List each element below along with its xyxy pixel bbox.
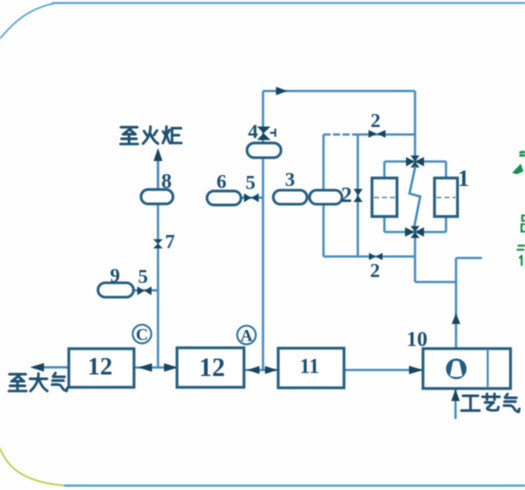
svg-text:12: 12 [88, 354, 113, 381]
svg-text:C: C [136, 325, 148, 344]
wire: right vessel drops [445, 162, 447, 181]
green fragment B [514, 165, 523, 174]
wire: top horizontal y=91 [263, 90, 415, 92]
box 11 [278, 348, 344, 388]
lightning bolt [410, 166, 421, 226]
arrow: right into box10 [409, 366, 423, 375]
adsorber vessel right [435, 178, 458, 217]
capsule 6 [207, 191, 241, 205]
svg-text:6: 6 [217, 171, 227, 193]
wire: purge loop top horizontal y=134.5 [324, 133, 358, 135]
text 至火炬 [121, 127, 182, 145]
wire: purge loop bottom horizontal y=256.5 [324, 255, 416, 257]
valve cross bottom [405, 226, 424, 238]
svg-text:4: 4 [248, 121, 258, 143]
arrow: right into box12R from junction [164, 363, 178, 372]
wire: product stub y=258 [456, 257, 482, 259]
wire: regen vertical x=263 from top corner to bottom junction [262, 91, 264, 370]
text 工艺气 [462, 394, 520, 412]
valve cross top [406, 156, 424, 168]
wire: vent line from box12L [33, 366, 69, 368]
工 [462, 396, 480, 411]
green fragment E [520, 256, 522, 265]
svg-text:11: 11 [300, 354, 320, 378]
green fragment D [518, 246, 525, 250]
adsorber vessel left [372, 178, 397, 217]
wire: between 12R and 11 [244, 369, 278, 371]
wire: horizontal y=282 valve to product riser [415, 281, 456, 283]
wire: purge loop left vertical x=323.5 [322, 135, 324, 257]
box 10 divider [487, 349, 489, 388]
slide bottom border [64, 485, 525, 487]
气 [52, 373, 67, 391]
blower symbol in box 10 [446, 359, 467, 380]
valve 2bot [369, 253, 383, 260]
wire: product riser x=456 [455, 258, 457, 349]
circled C [133, 325, 152, 344]
svg-text:9: 9 [110, 265, 120, 287]
svg-text:8: 8 [161, 169, 172, 193]
svg-text:2: 2 [370, 260, 380, 282]
wire: left vessel drops [383, 162, 385, 181]
slide top border [52, 2, 525, 4]
svg-text:A: A [240, 326, 253, 345]
svg-text:10: 10 [407, 327, 428, 351]
wire: between 12L and 12R [134, 366, 177, 368]
box 10 [423, 349, 511, 389]
text 至大气 [9, 373, 67, 391]
slide top-left corner curve [0, 3, 57, 39]
capsule 3 [273, 190, 307, 204]
wire: flare arrow upper segment [157, 160, 159, 190]
svg-text:12: 12 [199, 353, 225, 382]
valve 4 handle [270, 129, 275, 137]
wire: right vertical x=415 below bottom cross [414, 232, 416, 282]
arrow: up on product riser [452, 313, 461, 324]
至 [121, 127, 138, 144]
arrow: right into box11 from junction2 [265, 366, 278, 374]
艺 [483, 394, 500, 410]
valve 5a [137, 286, 151, 295]
capsule 9 [98, 283, 134, 297]
wire: process gas inlet [454, 389, 456, 420]
arrow: right on top header [276, 87, 288, 95]
大 [30, 374, 47, 392]
valve 2v [354, 189, 363, 202]
capsule 8 [141, 190, 173, 204]
arrow: up to flare [154, 148, 163, 161]
valve 7 [153, 239, 163, 248]
svg-text:2: 2 [371, 110, 381, 132]
wire: right vertical x=415 top section [414, 91, 416, 161]
green fragment C [522, 216, 525, 232]
wire: box11 to box10 [344, 369, 423, 371]
valve 4 [257, 127, 271, 141]
box 12 left [69, 349, 134, 388]
arrow: up process gas into box10 [451, 389, 460, 401]
valve 5b [244, 193, 259, 202]
wire: purge loop inner vertical x=357.8 [357, 135, 359, 257]
slide bottom-left corner curve [0, 448, 66, 486]
炬 [163, 127, 182, 144]
capsule 4 [247, 143, 281, 158]
wire: capsule6 to regen line y=197.7 [240, 197, 263, 199]
wire: capsule9 to flare line y=289.5 [131, 289, 158, 291]
valve 2top [369, 130, 386, 138]
green fragment A [521, 152, 525, 156]
wire: flare line vertical x=158 [157, 156, 159, 367]
capsule 3b [310, 190, 343, 204]
wire: vessel loop bottom header y=232 [384, 231, 446, 233]
box 12 right [177, 348, 244, 388]
svg-text:7: 7 [165, 231, 175, 253]
arrow: left into box12L from junction [138, 363, 152, 372]
svg-text:3: 3 [285, 169, 295, 191]
svg-text:5: 5 [138, 266, 148, 288]
circled A [237, 326, 256, 345]
svg-text:1: 1 [458, 166, 470, 191]
至 [9, 374, 26, 391]
arrow: left into box12R from junction2 [247, 366, 260, 374]
火 [143, 127, 158, 144]
arrow: left into box12L (vent) [30, 363, 44, 372]
svg-text:5: 5 [246, 172, 256, 194]
wire: vessel loop top header y=161.5 [384, 160, 446, 162]
气 [504, 394, 519, 412]
svg-text:2: 2 [341, 182, 352, 207]
